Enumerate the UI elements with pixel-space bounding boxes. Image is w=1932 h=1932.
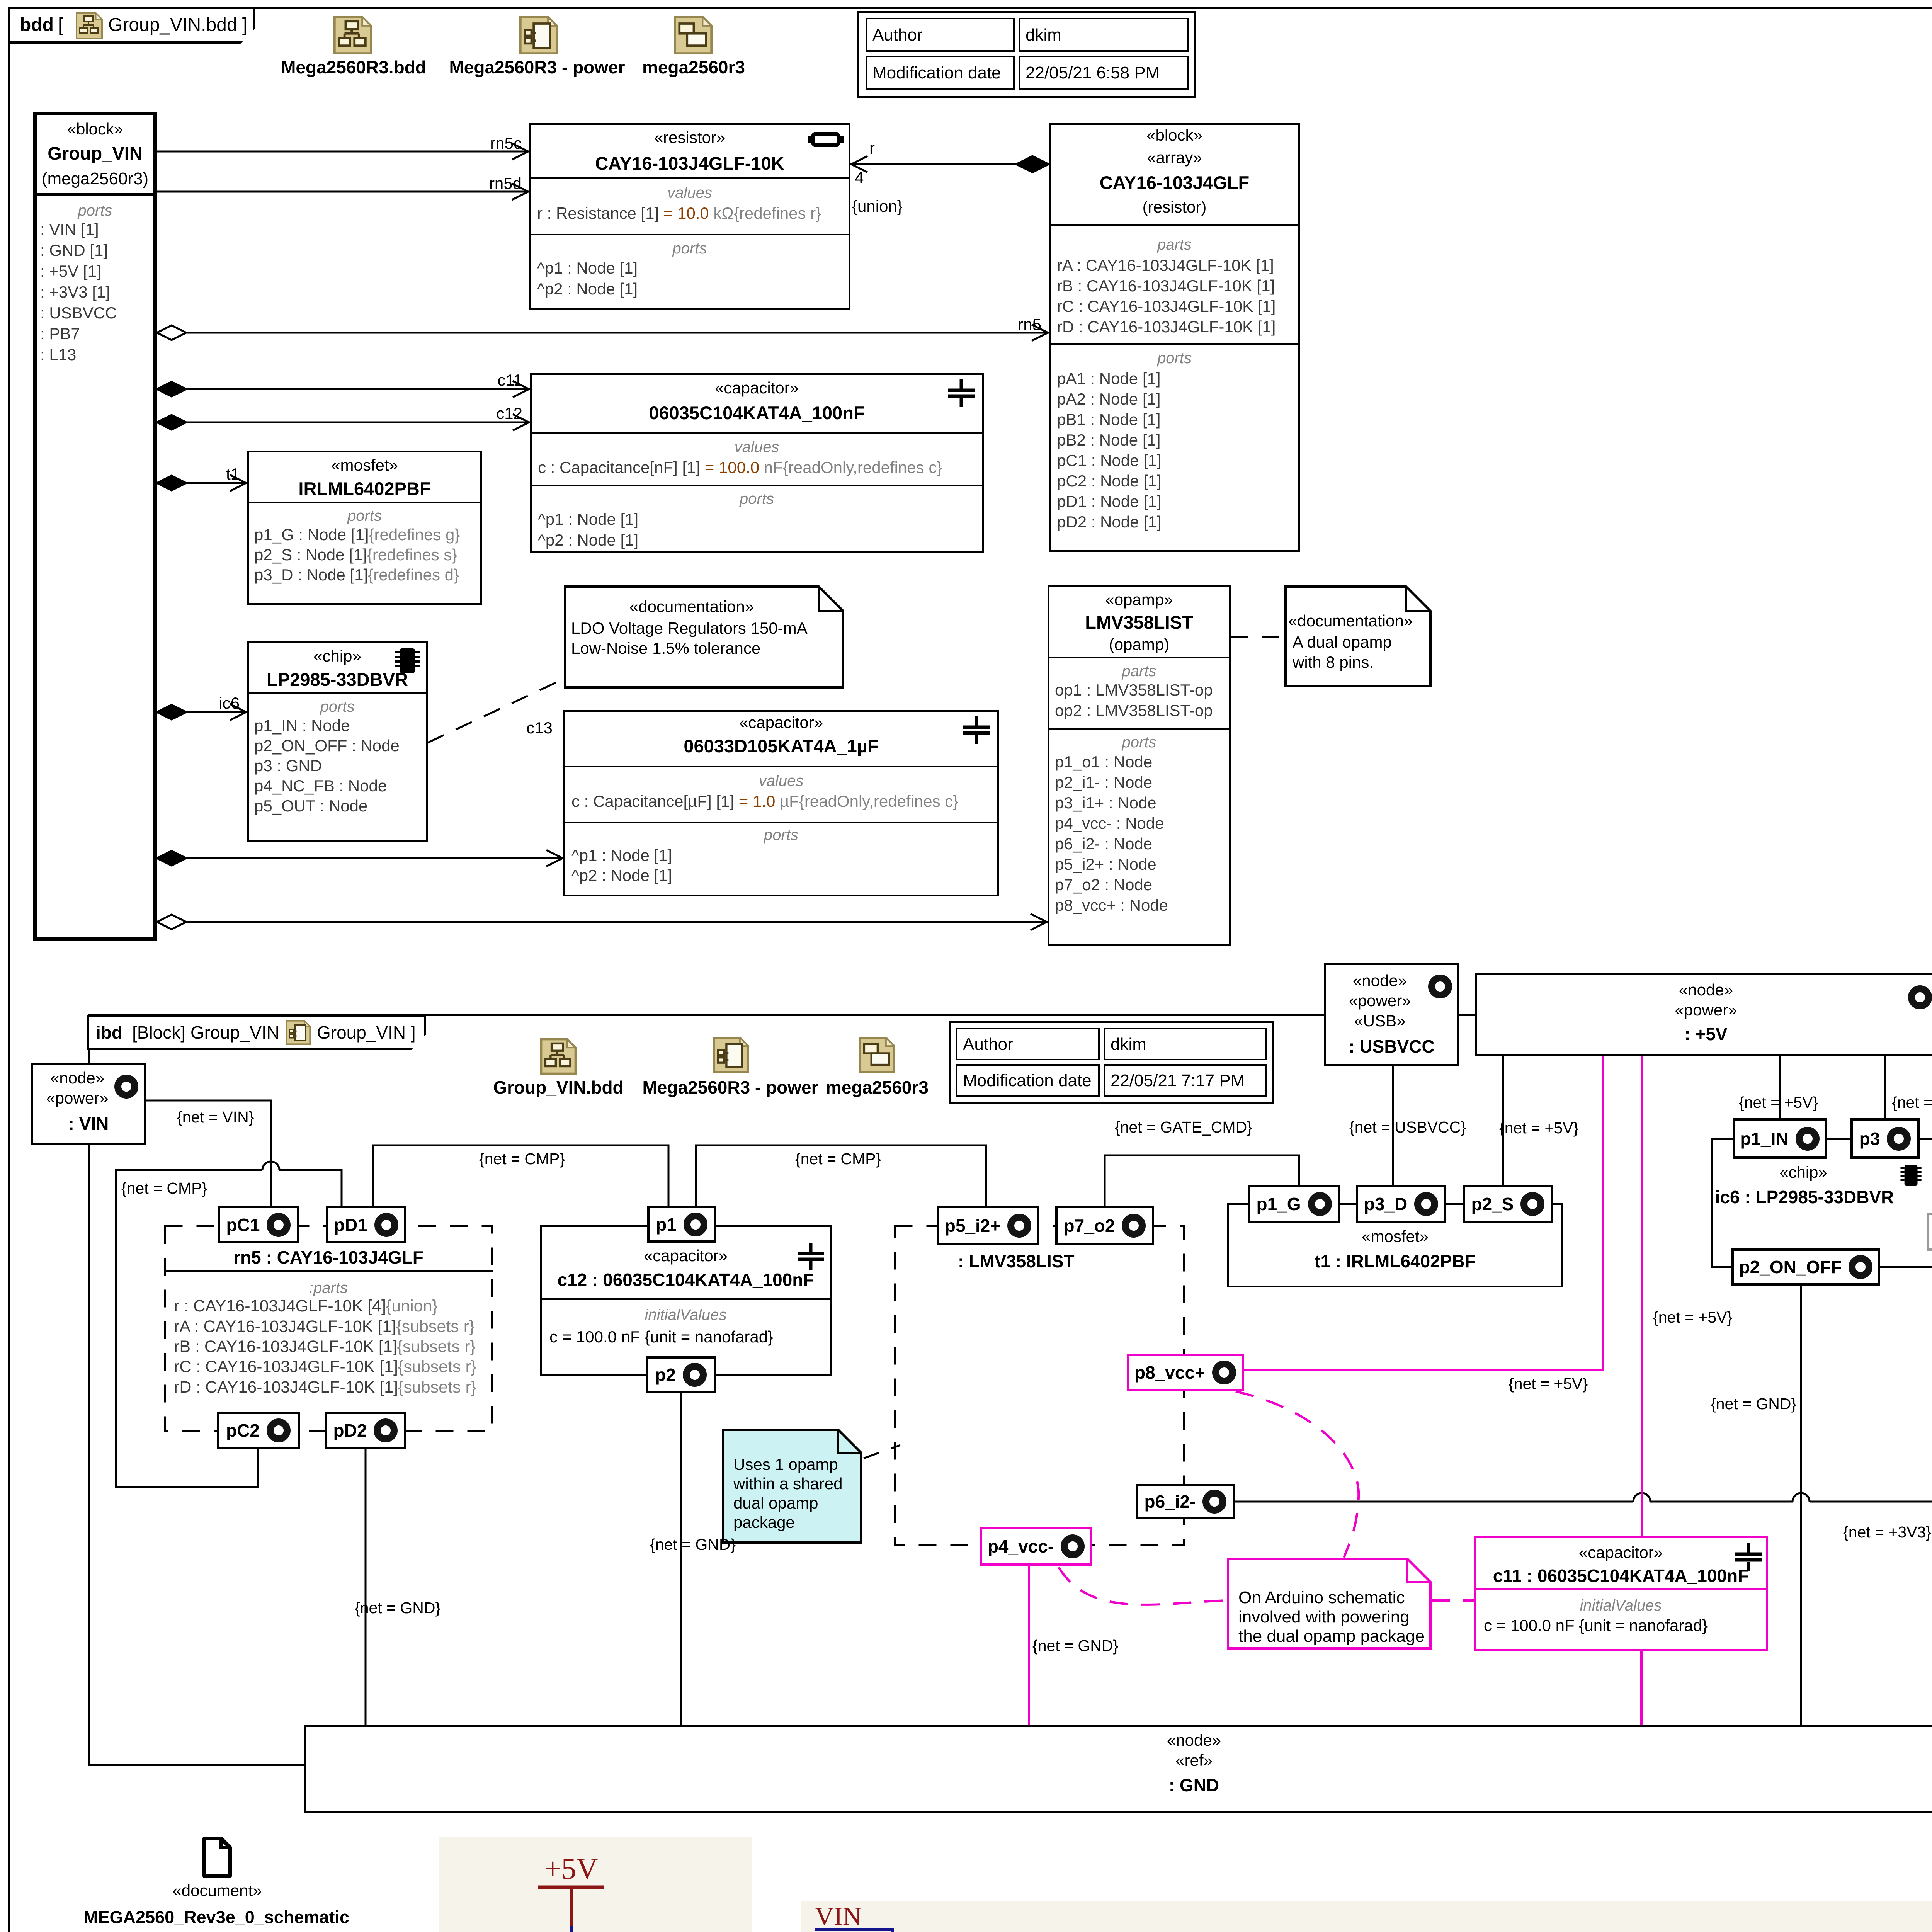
block Group_VIN xyxy=(33,112,157,941)
node ref GND bar xyxy=(304,1725,1932,1813)
bdd header icons xyxy=(333,16,372,54)
port pC2 xyxy=(217,1412,300,1449)
part ic6 xyxy=(1711,1138,1932,1268)
documentation note dual opamp xyxy=(1284,585,1432,687)
port p6_i2- xyxy=(1136,1484,1235,1519)
port c12.p2 xyxy=(646,1356,716,1393)
part t1 xyxy=(1227,1203,1563,1287)
note uses 1 opamp (cyan) xyxy=(722,1429,862,1544)
bdd frame tab xyxy=(8,7,255,44)
author table ibd xyxy=(949,1021,1274,1104)
node VIN xyxy=(31,1063,146,1145)
ibd frame tab xyxy=(87,1015,426,1050)
port pD1 xyxy=(326,1206,406,1243)
ibd net labels xyxy=(177,1109,254,1126)
port p8_vcc+ xyxy=(1127,1354,1244,1391)
block mosfet IRLML6402PBF xyxy=(247,451,482,605)
bdd connector labels xyxy=(444,135,522,152)
svg-text:VIN: VIN xyxy=(815,1901,862,1931)
block opamp LMV358LIST xyxy=(1048,585,1231,946)
node +5V xyxy=(1475,973,1932,1056)
port p2_S xyxy=(1463,1185,1553,1223)
part c11 pink xyxy=(1474,1536,1768,1651)
port p3_D xyxy=(1356,1185,1446,1223)
ibd frame xyxy=(88,1014,1932,1766)
port p1_G xyxy=(1248,1185,1340,1223)
documentation note LDO xyxy=(564,585,844,689)
port p4_vcc- xyxy=(980,1527,1092,1566)
block capacitor 06035C104KAT4A_100nF xyxy=(530,373,984,553)
port c12.p1 xyxy=(647,1206,716,1243)
block chip LP2985-33DBVR xyxy=(247,641,428,842)
part c12 xyxy=(540,1225,832,1376)
port pD2 xyxy=(325,1412,406,1449)
part rn5 dashed xyxy=(164,1225,493,1432)
block array CAY16-103J4GLF xyxy=(1049,123,1300,552)
power +5V (schem1) xyxy=(538,1852,604,1932)
ibd wires xyxy=(0,927,1932,1816)
port p5_i2+ xyxy=(937,1206,1039,1245)
port pC1 xyxy=(218,1206,299,1243)
block capacitor 06033D105KAT4A_1uF xyxy=(563,710,999,896)
port p2_ON_OFF xyxy=(1731,1248,1880,1286)
note on arduino schematic (pink) xyxy=(1227,1558,1432,1650)
ibd header icons xyxy=(540,1038,577,1075)
port p4_NC_FB xyxy=(1927,1213,1932,1251)
author table bdd xyxy=(857,11,1196,98)
port p3 xyxy=(1850,1118,1920,1159)
block resistor CAY16-103J4GLF-10K xyxy=(529,123,850,310)
schematic drawing xyxy=(0,1777,1932,1932)
document icon xyxy=(202,1837,232,1878)
port p7_o2 xyxy=(1055,1206,1154,1245)
net label VIN xyxy=(815,1901,892,1932)
schematic backgrounds xyxy=(439,1837,752,1932)
port p1_IN xyxy=(1733,1118,1827,1159)
bdd connectors xyxy=(0,0,1932,966)
node USBVCC xyxy=(1324,963,1459,1066)
part LMV358LIST dashed xyxy=(894,1225,1185,1546)
svg-text:+5V: +5V xyxy=(544,1852,598,1885)
